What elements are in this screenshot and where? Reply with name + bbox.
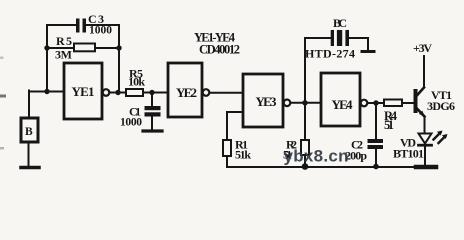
scan artifact dashes [0, 57, 6, 150]
capacitor C1 [120, 93, 161, 131]
wire to buzzer BC [305, 38, 331, 103]
battery B [21, 118, 38, 142]
label YE1-YE4 CD40012 [194, 31, 240, 57]
op-amp gate YE3 [243, 74, 290, 127]
wire battery to ground [28, 142, 30, 166]
svg-text:51: 51 [384, 118, 394, 132]
svg-text:YE1: YE1 [72, 84, 95, 99]
buzzer BC HTD-274 [305, 16, 368, 61]
wire bottom rail [227, 163, 436, 170]
wire YE3 output to YE4 [290, 100, 321, 105]
svg-text:ybx8.cn: ybx8.cn [284, 147, 349, 166]
wire LED to rail [424, 146, 426, 167]
svg-text:BC: BC [333, 16, 347, 30]
wire YE1 output [110, 90, 127, 95]
resistor R4 [384, 100, 414, 133]
svg-text:BT101: BT101 [393, 147, 424, 161]
transistor VT1 [416, 88, 456, 118]
wire emitter down [424, 117, 426, 134]
op-amp gate YE2 [168, 63, 209, 117]
resistor R5 3M [47, 34, 119, 62]
resistor R2 [283, 103, 309, 167]
svg-text:YE4: YE4 [332, 97, 354, 112]
wire top feedback loop [47, 25, 119, 93]
wire YE2 to YE3 [210, 92, 244, 94]
svg-text:YE2: YE2 [176, 85, 197, 100]
ground (BC) [362, 50, 374, 53]
svg-text:+3V: +3V [413, 41, 432, 55]
capacitor C3 [76, 12, 112, 37]
wire YE4 output [367, 100, 384, 105]
node: R5 row junctions [44, 45, 121, 50]
svg-text:HTD-274: HTD-274 [305, 47, 355, 61]
svg-text:10k: 10k [128, 75, 145, 89]
wire to battery [28, 91, 30, 119]
resistor R1 [223, 138, 251, 168]
svg-text:3M: 3M [55, 48, 72, 62]
svg-text:YE3: YE3 [256, 94, 278, 109]
op-amp gate YE4 [321, 73, 367, 126]
svg-text:1000: 1000 [120, 117, 142, 129]
op-amp gate YE1 [64, 63, 109, 119]
ground (battery) [21, 166, 39, 170]
svg-text:B: B [25, 126, 33, 138]
svg-text:51k: 51k [235, 148, 251, 162]
wire YE3 lower input to R1 [227, 112, 243, 140]
svg-text:1000: 1000 [89, 25, 112, 37]
capacitor C2 [345, 103, 383, 167]
svg-text:CD40012: CD40012 [199, 43, 240, 57]
svg-text:3DG6: 3DG6 [427, 99, 455, 113]
svg-text:R5: R5 [56, 34, 72, 48]
wire YE1 input and node [29, 89, 64, 94]
watermark ybx8.cn [284, 147, 349, 166]
wire +3V supply [413, 41, 432, 88]
resistor R5 10k [126, 67, 168, 97]
ground (C1) [143, 129, 162, 132]
LED VD BT101 [393, 131, 448, 161]
